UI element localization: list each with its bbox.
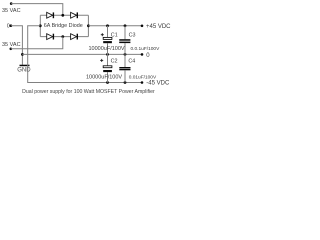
diode D2 (bridge top-right) — [71, 12, 78, 18]
svg-text:C1: C1 — [111, 32, 118, 38]
capacitor C3 — [119, 26, 160, 55]
terminal: 0 (output) — [141, 53, 151, 59]
capacitor C4 — [119, 54, 157, 82]
svg-text:35 VAC: 35 VAC — [2, 8, 21, 14]
bridge top row wire — [40, 14, 88, 16]
bridge bottom row wire — [40, 36, 88, 38]
terminal: -45 VDC — [141, 80, 170, 86]
node: C3 top junction — [124, 24, 127, 27]
svg-text:-45 VDC: -45 VDC — [146, 80, 170, 86]
capacitor C2 — [86, 54, 122, 82]
node: C1 top junction — [106, 24, 109, 27]
wire: bridge right edge — [87, 15, 89, 36]
capacitor C1 — [89, 26, 125, 55]
node: bridge AC2 junction — [61, 35, 64, 38]
node: bridge AC1 junction — [61, 14, 64, 17]
svg-text:0: 0 — [7, 23, 10, 29]
svg-text:10000uF/100V: 10000uF/100V — [89, 46, 125, 52]
terminal: +45 VDC — [141, 24, 171, 30]
node: bridge minus output — [39, 24, 42, 27]
svg-text:GND: GND — [17, 68, 31, 74]
node: C4 bottom junction — [124, 81, 127, 84]
node: C3/C4 midpoint junction — [124, 53, 127, 56]
svg-text:C4: C4 — [128, 59, 135, 65]
svg-text:+45 VDC: +45 VDC — [146, 24, 171, 30]
terminal: 35 VAC top — [2, 2, 21, 14]
terminal: 0 (center tap) — [7, 23, 12, 29]
node: ground rail junction — [21, 53, 24, 56]
svg-text:Dual power supply for 100 Watt: Dual power supply for 100 Watt MOSFET Po… — [22, 89, 155, 95]
node: C2 bottom junction — [106, 81, 109, 84]
diode D3 (bridge bottom-left) — [47, 34, 54, 40]
svg-text:C3: C3 — [129, 32, 136, 38]
svg-text:35 VAC: 35 VAC — [2, 42, 21, 48]
wire: minus net down to -45 rail — [28, 26, 142, 83]
wire: bottom 35VAC to bridge AC2 — [11, 37, 63, 49]
svg-text:C2: C2 — [111, 58, 118, 64]
svg-text:0.01uF/100V: 0.01uF/100V — [129, 74, 157, 80]
svg-text:10000uF/100V: 10000uF/100V — [86, 74, 122, 80]
node: bridge plus output — [87, 24, 90, 27]
svg-text:0.0.1uF/100V: 0.0.1uF/100V — [131, 46, 161, 52]
wire: center tap to ground — [11, 26, 23, 65]
node: C1/C2 midpoint junction — [106, 53, 109, 56]
ground — [17, 65, 31, 74]
wire: bridge left edge — [39, 15, 41, 36]
svg-text:6A Bridge Diode: 6A Bridge Diode — [44, 23, 83, 29]
wire: top 35VAC to bridge AC1 — [11, 4, 63, 16]
wire: 0 volt rail — [22, 53, 142, 55]
diode D4 (bridge bottom-right) — [71, 34, 78, 40]
diode D1 (bridge top-left) — [47, 12, 54, 18]
terminal: 35 VAC bottom — [2, 42, 21, 50]
wire: plus rail — [88, 25, 142, 27]
